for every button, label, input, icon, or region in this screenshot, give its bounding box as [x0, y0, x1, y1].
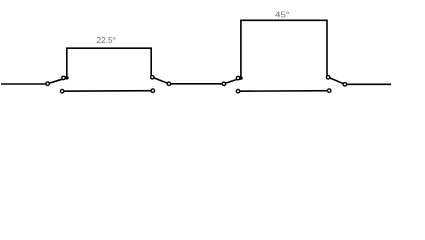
node SW1a pole terminal — [46, 82, 50, 86]
node SW2b throw terminal (bypass) — [327, 89, 331, 93]
junction dot at SW2a delay contact — [239, 76, 243, 80]
switch SW2a lever — [224, 78, 241, 84]
node SW1b throw terminal (delay) — [151, 76, 155, 80]
switch SW1a lever — [48, 78, 67, 84]
wire input — [1, 83, 46, 85]
node SW2b throw terminal (delay) — [326, 76, 330, 80]
wire between sections — [169, 83, 224, 85]
node SW1a throw terminal (bypass) — [60, 89, 64, 93]
wire output — [345, 83, 391, 85]
node SW1b pole terminal — [167, 82, 171, 86]
switch SW2b lever — [328, 77, 345, 84]
switch SW1b lever — [152, 77, 169, 84]
wire reference (bypass) line section 2 — [238, 90, 329, 93]
wire 45-degree delay line (top U path) — [241, 20, 327, 78]
node SW1a throw terminal (delay) — [62, 76, 66, 80]
junction dot at SW1a delay contact — [65, 76, 69, 80]
node SW2b pole terminal — [343, 83, 347, 87]
node SW2a throw terminal (delay) — [236, 76, 240, 80]
wire 22.5-degree delay line (top U path) — [67, 48, 151, 78]
node SW1b throw terminal (bypass) — [151, 89, 155, 93]
svg-text:22.5°: 22.5° — [97, 36, 116, 45]
node SW2a throw terminal (bypass) — [236, 89, 240, 93]
node SW2a pole terminal — [222, 82, 226, 86]
wire reference (bypass) line section 1 — [62, 90, 153, 93]
svg-text:45°: 45° — [275, 10, 290, 20]
